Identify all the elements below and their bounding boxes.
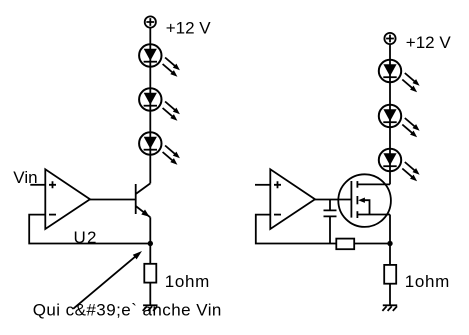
wire: source down to node B	[389, 215, 391, 244]
annotation text	[33, 301, 222, 320]
transistor Q1 NPN: base bar	[135, 184, 137, 214]
op-amp U3 minus input marker	[274, 214, 281, 216]
MOSFET M1 channel drain segment	[356, 181, 358, 188]
wire: node A to resistor R1	[149, 244, 151, 264]
resistor R2 (gate, horizontal)	[336, 239, 354, 250]
label Vin	[13, 168, 37, 187]
wire: noninverting input stub (right)	[255, 184, 270, 186]
wire: emitter down to node A	[149, 217, 151, 243]
label +12 V (left)	[166, 19, 212, 38]
svg-text:1ohm: 1ohm	[165, 272, 210, 291]
wire: gate resistor to node B	[354, 243, 390, 245]
MOSFET M1 body arrow and bulk tie	[358, 198, 369, 215]
supply terminal +12V (left)	[145, 16, 156, 27]
op-amp U2 minus input marker	[49, 214, 56, 216]
MOSFET M1 gate bar	[350, 181, 352, 218]
wire: right supply rail down through LEDs to drain corner	[389, 44, 391, 184]
wire: feedback from inverting input down and right to node A	[29, 215, 150, 244]
LED D3 (left)	[139, 132, 180, 164]
label 1ohm (right)	[405, 272, 450, 291]
LED D4 (right)	[379, 60, 420, 92]
MOSFET M1 channel source segment	[356, 211, 358, 218]
node B (source/feedback junction)	[387, 241, 392, 246]
op-amp U2 triangle	[45, 169, 90, 229]
svg-text:Qui c&#39;e` anche Vin: Qui c&#39;e` anche Vin	[33, 301, 222, 320]
wire: left supply rail down through LEDs to collector corner	[149, 28, 151, 184]
ground (left)	[143, 305, 158, 311]
svg-text:+12 V: +12 V	[166, 19, 212, 38]
op-amp U3 plus input marker	[274, 181, 281, 188]
MOSFET M1 source lead	[357, 214, 390, 216]
wire: base wire from op-amp output	[90, 199, 136, 201]
wire: node B to resistor R3	[389, 244, 391, 265]
LED D5 (right)	[379, 105, 420, 137]
wire: resistor R1 to ground	[149, 283, 151, 306]
wire: resistor R3 to ground	[389, 284, 391, 306]
svg-text:U2: U2	[74, 228, 98, 247]
ground (right)	[382, 305, 397, 311]
transistor Q1 NPN: collector lead	[136, 183, 151, 194]
resistor R1 1ohm (left)	[144, 264, 156, 283]
resistor R3 1ohm (right)	[384, 265, 396, 284]
svg-text:1ohm: 1ohm	[405, 272, 450, 291]
MOSFET M1 drain lead	[357, 183, 390, 185]
wire: op-amp output to gate	[315, 199, 352, 201]
op-amp U2 plus input marker	[49, 181, 56, 188]
wire: feedback from inverting input down and right to gate resistor	[256, 215, 336, 244]
capacitor C1 top lead	[329, 200, 331, 211]
supply terminal +12V (right)	[384, 33, 395, 44]
label +12 V (right)	[406, 33, 452, 52]
op-amp U3 triangle	[270, 169, 315, 229]
LED D2 (left)	[139, 88, 180, 120]
wire: noninverting input stub	[30, 184, 45, 186]
LED D1 (left)	[139, 44, 180, 76]
annotation arrow to node A	[73, 251, 142, 309]
label 1ohm (left)	[165, 272, 210, 291]
LED D6 (right)	[379, 149, 420, 181]
label U2	[74, 228, 98, 247]
node A (emitter/feedback junction)	[148, 241, 153, 246]
MOSFET M1 channel body segment	[356, 196, 358, 204]
transistor Q1 NPN: emitter lead with arrow	[136, 206, 151, 217]
MOSFET M1 body circle	[338, 174, 391, 227]
capacitor C1 plates	[324, 210, 337, 216]
capacitor C1 bottom lead	[329, 216, 331, 243]
svg-text:+12 V: +12 V	[406, 33, 452, 52]
